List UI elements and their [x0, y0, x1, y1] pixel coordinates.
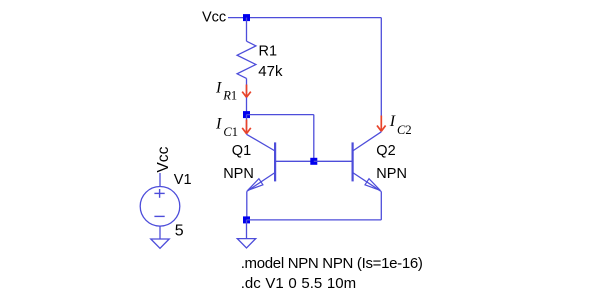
svg-text:R1: R1 [259, 43, 278, 59]
svg-text:I: I [389, 113, 396, 130]
transistor Q1 (NPN, mirrored, base on right) [247, 134, 276, 191]
svg-text:NPN: NPN [376, 166, 407, 182]
node N2 (R1 bottom / collector feed junction) [243, 111, 250, 118]
svg-text:I: I [215, 116, 222, 133]
svg-text:C1: C1 [223, 125, 238, 139]
wire: N1 down to R1 top [246, 18, 248, 42]
wire: N4 down to ground [246, 220, 248, 239]
svg-text:I: I [215, 80, 222, 97]
wire: corner down to node N3 [313, 115, 315, 162]
wire: Vcc label to node N1 [228, 17, 247, 19]
resistor R1 [237, 41, 256, 78]
wire: top rail N1 to right rail corner [247, 17, 382, 19]
svg-text:.dc V1 0 5.5 10m: .dc V1 0 5.5 10m [241, 275, 356, 292]
ground (V1) [151, 239, 169, 248]
svg-text:Vcc: Vcc [155, 146, 172, 172]
voltage source V1 [140, 187, 180, 227]
wire: Q2 emitter down to bottom rail [380, 191, 382, 220]
svg-text:Vcc: Vcc [202, 10, 226, 26]
wire: node N3 to Q2 base [314, 160, 353, 162]
svg-text:.model NPN NPN (Is=1e-16): .model NPN NPN (Is=1e-16) [241, 255, 423, 272]
wire: R1 bottom to node N2 [246, 78, 248, 114]
svg-text:NPN: NPN [223, 166, 254, 182]
wire: Q1 emitter down to node N4 [246, 191, 248, 220]
node N1 (Vcc junction) [243, 14, 250, 21]
current arrow I_C2 [377, 116, 386, 132]
svg-text:V1: V1 [174, 172, 192, 188]
current arrow I_C1 [242, 120, 251, 134]
wire: N2 down to Q1 collector [246, 115, 248, 135]
svg-text:R1: R1 [222, 88, 237, 102]
svg-text:5: 5 [175, 222, 184, 239]
wire: bottom rail N4 to Q2 emitter leg [247, 219, 382, 221]
wire: Q1 base to node N3 [275, 160, 314, 162]
wire: Vcc label to V1 plus terminal [159, 173, 161, 187]
svg-text:Q1: Q1 [232, 143, 251, 159]
node N3 (base junction) [310, 158, 317, 165]
current arrow I_R1 [242, 85, 251, 98]
wire: N2 right to corner [247, 114, 314, 116]
svg-text:47k: 47k [258, 63, 283, 80]
wire: V1 minus to ground [159, 226, 161, 239]
wire: right rail down to Q2 collector [380, 18, 382, 132]
svg-text:C2: C2 [397, 123, 412, 137]
transistor Q2 (NPN, base on left) [353, 132, 382, 192]
ground (emitters) [237, 239, 255, 248]
node N4 (emitter junction) [243, 216, 250, 223]
svg-text:Q2: Q2 [376, 143, 395, 159]
